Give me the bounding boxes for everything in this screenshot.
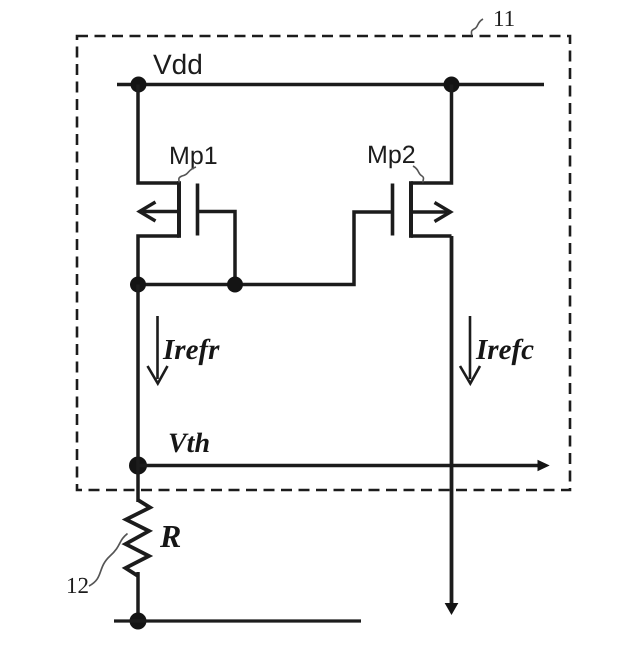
svg-text:12: 12	[66, 573, 89, 598]
node dot bottom	[130, 613, 147, 630]
leader to Mp1	[179, 167, 196, 183]
wire resistor to bottom node	[136, 572, 140, 621]
svg-text:Mp2: Mp2	[367, 141, 416, 169]
wire bottom rail	[114, 619, 361, 622]
node dot Mp1 drain	[130, 277, 146, 293]
wire Mp1 source from Vdd	[138, 85, 179, 184]
resistor R	[126, 500, 151, 576]
current arrow Irefr	[148, 316, 168, 384]
node dot Vth	[129, 457, 147, 475]
svg-text:Vdd: Vdd	[153, 49, 203, 80]
leader to Mp2	[413, 166, 424, 183]
transistor Mp2 gate bar	[391, 184, 395, 236]
wire Mp2 drain down with output arrow	[450, 236, 454, 605]
wire Mp1 drain to node	[138, 236, 179, 285]
svg-text:R: R	[159, 518, 181, 554]
transistor Mp2 channel bar	[409, 181, 413, 238]
svg-text:11: 11	[493, 6, 515, 31]
wire Mp1 drain down to resistor	[136, 285, 140, 503]
svg-text:Irefr: Irefr	[162, 334, 220, 366]
leader to box 11	[471, 19, 483, 36]
Vdd rail	[117, 83, 544, 86]
dashed box 11	[77, 36, 570, 490]
transistor Mp1 source arrow (points left)	[140, 202, 178, 221]
svg-text:Irefc: Irefc	[475, 334, 534, 366]
transistor Mp2 source arrow (points right)	[413, 203, 451, 222]
transistor Mp1 channel bar	[177, 181, 181, 238]
wire Mp1 gate to node	[198, 212, 236, 286]
wire gate-drain mirror bus	[138, 212, 393, 285]
wire Vth output with arrow	[138, 464, 539, 467]
wire Mp2 source from Vdd	[411, 85, 452, 184]
node dot left Vdd	[131, 77, 147, 93]
node dot right Vdd	[444, 77, 460, 93]
node dot gate junction	[227, 277, 243, 293]
leader to resistor 12	[89, 534, 128, 587]
transistor Mp1 gate bar	[196, 184, 200, 236]
svg-text:Vth: Vth	[168, 428, 210, 459]
current arrow Irefc	[460, 316, 480, 384]
svg-text:Mp1: Mp1	[169, 142, 218, 170]
